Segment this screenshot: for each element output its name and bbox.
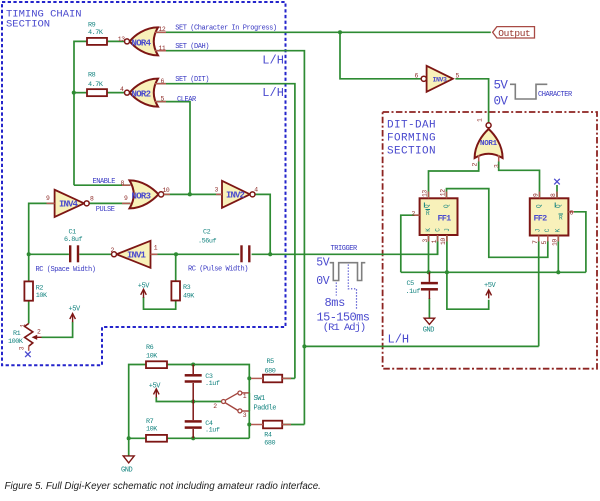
svg-text:13: 13 <box>422 190 429 197</box>
svg-text:Figure 5. Full Digi-Keyer sche: Figure 5. Full Digi-Keyer schematic not … <box>5 481 321 492</box>
inverter INV4 <box>55 190 85 217</box>
svg-text:12: 12 <box>440 189 447 196</box>
svg-text:SECTION: SECTION <box>6 19 50 31</box>
capacitor C3 <box>185 374 202 377</box>
svg-text:8: 8 <box>121 180 125 187</box>
wire R4 right to SET(DAH) column <box>282 424 304 426</box>
svg-text:C: C <box>435 228 442 232</box>
svg-text:RC (Space Width): RC (Space Width) <box>36 266 96 274</box>
node R4 left <box>247 422 251 426</box>
node C4 bottom <box>191 436 195 440</box>
svg-text:6: 6 <box>415 72 419 79</box>
nor gate NOR2 <box>130 79 158 107</box>
svg-text:8: 8 <box>90 195 94 202</box>
svg-text:Q: Q <box>536 204 543 208</box>
resistor R3 <box>171 281 180 300</box>
wire FF1 pin1 clock down <box>437 235 439 254</box>
svg-text:INV4: INV4 <box>59 200 79 210</box>
wire C5 bottom to GND <box>428 298 430 318</box>
svg-text:L/H: L/H <box>262 54 284 68</box>
svg-text:1: 1 <box>154 244 158 251</box>
wire to INV3 input <box>340 32 421 79</box>
power +5V at R3 <box>141 289 147 298</box>
svg-text:NOR1: NOR1 <box>480 140 498 148</box>
svg-text:4: 4 <box>254 186 258 193</box>
svg-text:C2: C2 <box>203 228 211 236</box>
resistor R2 <box>24 281 33 300</box>
resistor R4 <box>263 421 282 429</box>
inverter INV3 <box>427 66 453 92</box>
svg-text:CLEAR: CLEAR <box>177 96 197 104</box>
svg-text:+5V: +5V <box>149 382 162 390</box>
resistor R7 <box>146 435 167 442</box>
wire TRIGGER line to FF1 clock <box>270 241 437 254</box>
svg-text:10K: 10K <box>146 353 158 361</box>
section box DIT-DAH FORMING (red dash-dot) <box>383 112 597 369</box>
svg-text:Output: Output <box>498 28 530 39</box>
svg-text:SET (Character In Progress): SET (Character In Progress) <box>175 25 277 33</box>
svg-text:INV1: INV1 <box>127 251 147 261</box>
svg-text:PULSE: PULSE <box>96 206 115 214</box>
svg-text:NOR4: NOR4 <box>132 38 152 48</box>
node C1/R2/INV4 <box>27 252 31 256</box>
svg-text:1: 1 <box>243 393 247 400</box>
svg-text:.1uf: .1uf <box>205 380 220 388</box>
capacitor C4 <box>185 420 202 423</box>
no-connect X at FF2 pin8 <box>554 179 560 185</box>
svg-text:0V: 0V <box>494 95 509 109</box>
capacitor C1 <box>69 245 71 262</box>
node C5 top <box>427 270 431 274</box>
svg-text:4.7K: 4.7K <box>88 81 104 89</box>
node output branch <box>338 30 342 34</box>
svg-text:Q: Q <box>443 204 450 208</box>
node R5 left <box>247 376 251 380</box>
svg-text:1: 1 <box>19 324 26 328</box>
svg-text:NOR2: NOR2 <box>132 90 151 100</box>
power +5V at FF section <box>486 290 492 299</box>
svg-text:2: 2 <box>37 328 41 335</box>
svg-text:4.7K: 4.7K <box>88 29 104 37</box>
svg-text:Paddle: Paddle <box>254 405 277 413</box>
svg-text:2: 2 <box>412 211 416 218</box>
wire SET(DAH) NOR4 pin11 <box>157 51 304 425</box>
svg-text:8ms: 8ms <box>325 296 346 310</box>
svg-text:2: 2 <box>472 163 479 167</box>
svg-text:CHARACTER: CHARACTER <box>538 91 573 99</box>
inverter INV1 <box>117 241 151 268</box>
svg-text:(R1 Adj): (R1 Adj) <box>323 322 365 334</box>
wire NOR1 left input to FF1 pin13 <box>429 162 479 199</box>
wire R3 top lead <box>175 254 177 281</box>
svg-text:.56uf: .56uf <box>198 237 217 245</box>
svg-text:3: 3 <box>215 186 219 193</box>
resistor R9 <box>87 38 107 45</box>
leader dotted 15-150ms <box>348 265 356 310</box>
svg-text:R5: R5 <box>267 358 275 366</box>
svg-text:5V: 5V <box>494 79 509 93</box>
svg-text:13: 13 <box>118 36 125 43</box>
wire NOR4 output to R9 and down-bus <box>107 40 125 42</box>
svg-text:6: 6 <box>161 78 165 85</box>
wire FF2 pin10 down <box>557 236 559 273</box>
svg-text:9: 9 <box>124 195 128 202</box>
wire +5V mid row to SW1 common <box>156 397 221 402</box>
node R3 top <box>174 252 178 256</box>
svg-text:3: 3 <box>493 164 500 168</box>
svg-text:R: R <box>426 210 430 217</box>
svg-text:+5V: +5V <box>484 282 497 290</box>
svg-text:5: 5 <box>541 241 548 245</box>
svg-text:R: R <box>559 214 563 221</box>
wire NOR3 output to INV2 input <box>164 193 222 195</box>
wire R6 row <box>129 365 146 456</box>
resistor R8 <box>87 89 107 96</box>
svg-text:9: 9 <box>533 193 540 197</box>
wire L/H row to FF2 pin7 <box>304 345 538 347</box>
capacitor C2 <box>240 245 242 262</box>
wire INV1 pin1 to C2 <box>151 253 240 255</box>
resistor R5 <box>263 375 282 383</box>
node FF2 pin10 <box>556 270 560 274</box>
svg-text:8: 8 <box>550 193 557 197</box>
wire INV3 output to NOR1 <box>455 79 488 123</box>
inverter INV2 <box>222 181 250 208</box>
svg-text:INV3: INV3 <box>433 76 448 83</box>
svg-text:680: 680 <box>265 367 276 375</box>
svg-text:J: J <box>535 229 542 233</box>
wire FF2 pin6 to bus <box>574 212 586 272</box>
svg-text:2: 2 <box>213 403 217 410</box>
power +5V at R1 wiper <box>70 314 76 323</box>
node R7/GND <box>127 436 131 440</box>
svg-text:12: 12 <box>159 26 166 33</box>
global label Output <box>493 27 535 38</box>
svg-text:0V: 0V <box>316 275 329 288</box>
svg-text:J: J <box>444 228 451 232</box>
svg-text:R6: R6 <box>146 344 154 352</box>
nor gate NOR3 <box>130 180 159 208</box>
capacitor C5 <box>421 282 438 285</box>
svg-text:ENABLE: ENABLE <box>93 178 116 186</box>
svg-text:1: 1 <box>431 239 438 243</box>
svg-text:SET (DAH): SET (DAH) <box>175 43 209 51</box>
node C3 top <box>191 362 195 366</box>
svg-text:GND: GND <box>121 467 133 475</box>
svg-text:SET (DIT): SET (DIT) <box>175 76 209 84</box>
svg-text:INV2: INV2 <box>226 191 245 201</box>
wire FF2 pin8 up to X <box>556 185 558 198</box>
svg-text:10: 10 <box>552 239 559 246</box>
nor gate NOR1 <box>475 129 503 158</box>
svg-text:SECTION: SECTION <box>387 146 436 158</box>
flip-flop FF1 <box>420 198 458 235</box>
svg-text:49K: 49K <box>183 292 195 300</box>
svg-text:6: 6 <box>570 210 574 217</box>
svg-text:5: 5 <box>456 73 460 80</box>
wire INV4 out to NOR3 pin 9 <box>89 202 130 204</box>
svg-text:+5V: +5V <box>69 306 82 314</box>
svg-text:4: 4 <box>120 86 124 93</box>
svg-text:FORMING: FORMING <box>387 133 436 145</box>
node +5V branch <box>445 270 449 274</box>
svg-text:GND: GND <box>423 327 435 335</box>
flip-flop FF2 <box>530 198 569 235</box>
svg-text:FF2: FF2 <box>534 214 548 224</box>
svg-text:.1uf: .1uf <box>205 426 220 434</box>
svg-text:10K: 10K <box>146 426 158 434</box>
svg-text:R8: R8 <box>88 72 96 80</box>
svg-text:9: 9 <box>46 195 50 202</box>
svg-text:100K: 100K <box>8 338 24 346</box>
svg-text:3: 3 <box>19 346 26 350</box>
svg-text:1: 1 <box>477 118 484 122</box>
svg-text:FF1: FF1 <box>438 214 452 224</box>
wire R1 wiper to +5V <box>42 322 73 338</box>
svg-text:C5: C5 <box>407 280 415 288</box>
svg-text:.1uf: .1uf <box>406 288 421 296</box>
svg-text:Q: Q <box>555 204 562 208</box>
potentiometer R1 <box>25 324 33 347</box>
resistor R6 <box>146 361 167 368</box>
wire R8 left lead <box>74 92 87 94</box>
no-connect X at R1 pin3 <box>25 352 31 358</box>
wire C2 to trigger junction <box>252 253 271 255</box>
wire R7 row <box>129 437 146 439</box>
wire FF1 pin3 down <box>428 235 430 272</box>
svg-text:R4: R4 <box>264 432 272 440</box>
wire INV2 output down to RC line <box>255 194 270 254</box>
switch SW1 Paddle <box>225 393 249 411</box>
svg-text:R3: R3 <box>183 284 191 292</box>
wire R2 to R1 pot <box>28 301 30 324</box>
svg-text:L/H: L/H <box>388 332 410 346</box>
svg-text:+5V: +5V <box>138 283 151 291</box>
svg-text:C: C <box>544 228 551 232</box>
svg-text:7: 7 <box>532 240 539 244</box>
wire R5 right to SET(DIT) column <box>282 377 295 379</box>
svg-text:3: 3 <box>243 412 247 419</box>
svg-text:NOR3: NOR3 <box>132 191 151 201</box>
wire RC space-width line C1 to INV1 <box>29 253 69 255</box>
svg-text:5: 5 <box>161 96 165 103</box>
wire ENABLE into NOR3 pin 8 <box>74 184 131 186</box>
section box TIMING CHAIN (blue dashed) <box>2 2 286 365</box>
svg-text:10: 10 <box>440 238 447 245</box>
node L/H branch <box>302 344 306 348</box>
svg-text:3: 3 <box>422 239 429 243</box>
nor gate NOR4 <box>130 27 158 55</box>
svg-text:DIT-DAH: DIT-DAH <box>387 120 436 132</box>
wire R3 bottom to +5V <box>144 297 176 309</box>
wire FF1 pin10 down <box>446 235 448 272</box>
power +5V mid <box>154 389 160 398</box>
svg-text:6.8uf: 6.8uf <box>64 236 83 244</box>
wire R8 to NOR2 bubble <box>107 92 125 94</box>
wire FF1 pin2 reset to bus <box>401 215 420 272</box>
wire CLEAR NOR2 pin5 <box>157 102 190 195</box>
svg-text:680: 680 <box>264 440 275 448</box>
svg-text:11: 11 <box>159 45 166 52</box>
wire +5V branch <box>447 272 489 309</box>
svg-text:10K: 10K <box>36 292 48 300</box>
node C3/C4 mid <box>191 399 195 403</box>
ground GND at C5 <box>424 318 435 324</box>
svg-text:K: K <box>425 228 432 232</box>
svg-text:5V: 5V <box>316 257 329 270</box>
wire INV4 input from C1 node <box>29 203 55 254</box>
wire FF2 pin7 column <box>538 241 540 346</box>
svg-text:SW1: SW1 <box>254 395 266 403</box>
svg-text:K: K <box>555 228 562 232</box>
wire FF1 pin12 to FF2 pin5 <box>447 189 548 258</box>
leader dotted 8ms <box>335 283 337 296</box>
svg-text:RC (Pulse Width): RC (Pulse Width) <box>188 266 248 274</box>
wire SET(DIT) NOR2 pin6 <box>157 84 295 379</box>
wire bus K/J row <box>401 271 586 273</box>
svg-text:L/H: L/H <box>262 86 284 100</box>
svg-text:2: 2 <box>111 247 115 254</box>
wire NOR1 right input to FF2 pin9 <box>499 162 540 199</box>
svg-text:TRIGGER: TRIGGER <box>331 245 359 253</box>
svg-text:10: 10 <box>163 187 170 194</box>
wire R2 column <box>28 254 30 281</box>
wire SET(Character) NOR4 pin12 to Output <box>157 31 491 33</box>
ground GND bottom-left <box>123 456 134 463</box>
node INV2/C2/TRIGGER <box>268 252 272 256</box>
node NOR3 out / CLEAR <box>188 192 192 196</box>
node R8 junction <box>72 91 76 95</box>
